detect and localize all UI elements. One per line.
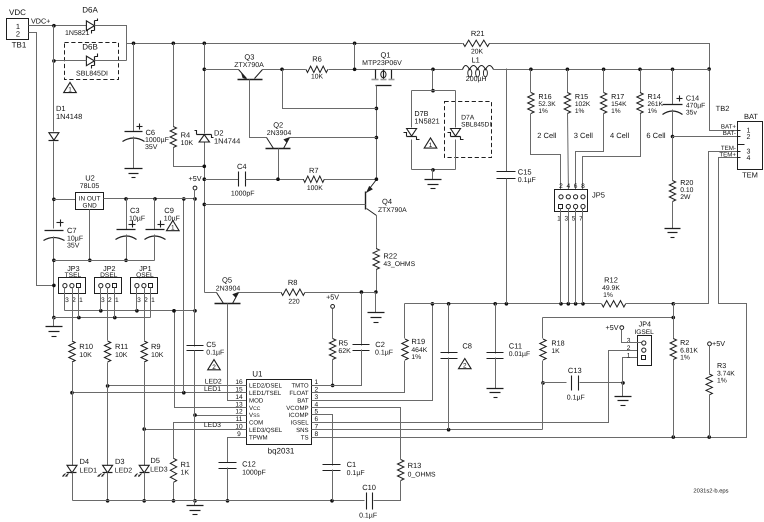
resistor R21 (20K) [463, 29, 490, 56]
svg-text:2N3904: 2N3904 [267, 130, 292, 137]
svg-text:L1: L1 [472, 56, 480, 65]
svg-text:10K: 10K [115, 352, 128, 359]
label file name [693, 488, 728, 495]
svg-text:IGSEL: IGSEL [634, 329, 654, 336]
wire BAT (pin3) [312, 302, 435, 401]
svg-text:LED1/TSEL: LED1/TSEL [249, 390, 282, 397]
svg-text:C9: C9 [164, 206, 174, 215]
+5V terminal (JP4) [606, 323, 624, 332]
wire R19 top to BAT bus [404, 304, 406, 339]
svg-text:C5: C5 [206, 340, 216, 349]
wire Q5 base to MOD [228, 304, 247, 401]
dashed box around D6B [65, 43, 119, 80]
wire R18 bottom [541, 361, 545, 385]
connector JP3 (TSEL) [59, 264, 86, 304]
svg-text:R4: R4 [181, 131, 191, 140]
resistor R3 (3.74K 1%) [706, 346, 735, 395]
svg-text:R8: R8 [288, 278, 298, 287]
svg-text:MOD: MOD [249, 397, 264, 404]
wire +5V down to C5 [194, 199, 196, 347]
wire Q1 gate [375, 86, 379, 180]
svg-text:1%: 1% [611, 108, 621, 115]
capacitor C5 (0.1uF) [187, 340, 225, 357]
capacitor C9 (10uF) [145, 199, 180, 240]
wire +5V output line [104, 197, 197, 201]
svg-text:R18: R18 [551, 339, 564, 348]
voltage regulator U2 (78L05) [76, 174, 104, 210]
svg-text:0_OHMS: 0_OHMS [408, 472, 436, 479]
wire D2 node to C4 [205, 179, 239, 181]
wire Q1 drain to L1 [392, 68, 463, 72]
resistor R9 (10K) [141, 341, 164, 362]
wire R12 right to TEM- node [626, 302, 676, 306]
svg-text:C7: C7 [67, 226, 77, 235]
wire L1 output line [494, 68, 710, 72]
svg-text:ZTX790A: ZTX790A [234, 62, 264, 69]
resistor R15 (102K 1%) 3-cell [564, 70, 593, 141]
resistor R8 (220) [281, 278, 305, 306]
wire R2 bottom to TS [673, 360, 675, 438]
svg-text:4: 4 [566, 183, 570, 190]
wire rail right of R21 to TB2 BAT+ [490, 44, 738, 131]
wire C14 bottom to BAT- line [671, 110, 675, 139]
LED D5 (LED3) [135, 456, 168, 477]
svg-text:VCC: VCC [249, 405, 261, 412]
svg-text:R21: R21 [471, 29, 485, 38]
wire C4 to R7 [246, 177, 304, 181]
svg-text:D4: D4 [80, 457, 90, 466]
svg-text:C11: C11 [509, 342, 522, 351]
svg-text:C6: C6 [146, 128, 156, 137]
wire R3 bottom to TS [709, 395, 711, 438]
wire Q2 base [278, 149, 280, 180]
svg-text:U2: U2 [85, 174, 95, 183]
inductor L1 (200uH) [463, 56, 494, 84]
wire Q5 emitter to R8 [239, 292, 281, 294]
svg-text:R20: R20 [680, 178, 693, 187]
svg-text:62K: 62K [338, 348, 351, 355]
wire U2 IN [54, 199, 76, 201]
svg-text:1N4744: 1N4744 [214, 137, 240, 146]
svg-text:10K: 10K [181, 140, 194, 147]
LED D4 (LED1) [62, 457, 97, 477]
svg-text:3: 3 [627, 338, 631, 345]
wire D6B cathode [95, 60, 127, 62]
svg-text:2: 2 [16, 30, 20, 39]
svg-text:1: 1 [627, 352, 631, 359]
resistor R22 (43_OHMS) [373, 249, 416, 270]
svg-text:6.81K: 6.81K [680, 348, 698, 355]
wire ground bus (C7-C3-C9) [54, 260, 155, 262]
wire D7 box top [412, 90, 456, 92]
resistor R18 (1K) [540, 318, 565, 361]
svg-text:TS: TS [301, 434, 309, 441]
wire C15 bottom to bus [506, 179, 508, 304]
svg-text:JP5: JP5 [592, 191, 605, 200]
wire C2 bottom to TMTO line [312, 350, 362, 386]
wire SNS (pin7) [312, 428, 543, 432]
resistor R12 (49.9K 1%) [602, 276, 626, 308]
svg-text:SBL845DI: SBL845DI [76, 71, 108, 78]
svg-text:U1: U1 [252, 370, 263, 379]
svg-text:20K: 20K [471, 49, 484, 56]
svg-text:D6A: D6A [82, 6, 98, 15]
svg-text:3 Cell: 3 Cell [574, 131, 594, 140]
svg-text:1N5821: 1N5821 [65, 30, 90, 37]
svg-text:TSEL: TSEL [65, 272, 82, 279]
ground (bottom bus) [187, 501, 204, 515]
svg-text:LED3: LED3 [150, 467, 168, 474]
svg-text:+5V: +5V [712, 339, 725, 348]
svg-text:LED2: LED2 [205, 379, 222, 386]
svg-text:1%: 1% [717, 377, 727, 384]
connector JP5 [555, 183, 605, 223]
svg-text:35V: 35V [67, 243, 80, 250]
svg-text:R13: R13 [408, 461, 422, 470]
IC U1 (bq2031) [235, 370, 318, 456]
wire D4 cathode [72, 473, 74, 501]
svg-text:COM: COM [249, 420, 263, 427]
svg-text:VSS: VSS [249, 412, 260, 419]
svg-text:1: 1 [151, 297, 155, 304]
transistor Q2 (2N3904 NPN) [266, 121, 292, 149]
wire VDC- from TB1 pin 2 [29, 33, 54, 286]
svg-text:1: 1 [68, 87, 72, 94]
svg-text:+5V: +5V [326, 292, 339, 301]
capacitor C1 (0.1uF) [323, 460, 365, 477]
wire JP1 pin2 to R9 [144, 288, 146, 341]
wire C8 bottom to SNS [448, 358, 450, 430]
svg-text:VDC: VDC [9, 8, 26, 17]
resistor R20 (0.10 2W) [669, 137, 693, 202]
svg-text:R5: R5 [338, 339, 348, 348]
wire C5 bottom to Vss/ground [193, 351, 197, 503]
svg-text:100K: 100K [307, 185, 323, 192]
svg-text:1: 1 [429, 142, 433, 149]
wire ground select line (jumper pin 1s) [54, 288, 151, 320]
svg-text:10K: 10K [151, 352, 164, 359]
connector JP2 (DSEL) [95, 264, 122, 304]
wire R4 bottom to D2 node [174, 148, 205, 167]
capacitor C13 (0.1uF) [543, 366, 585, 402]
wire R5 bottom to TMTO [331, 360, 335, 388]
wire JP4 pin3 to +5V [622, 330, 642, 343]
svg-text:102K: 102K [575, 101, 591, 108]
svg-text:R22: R22 [383, 252, 397, 261]
svg-text:6 Cell: 6 Cell [646, 131, 666, 140]
svg-text:2: 2 [108, 297, 112, 304]
svg-text:R10: R10 [79, 342, 93, 351]
svg-text:R16: R16 [538, 92, 551, 101]
svg-text:2031s2-b.eps: 2031s2-b.eps [693, 488, 728, 495]
dashed box around D7A [445, 102, 492, 158]
svg-text:10µF: 10µF [129, 216, 145, 223]
svg-text:bq2031: bq2031 [268, 447, 295, 456]
wire D7B cathode [411, 140, 413, 170]
wire R11 to D3 [107, 363, 109, 466]
wire +5V branch to TSEL line [182, 197, 186, 392]
ground (left jumper area) [46, 318, 63, 337]
wire R18/C13 to SNS end [542, 383, 544, 430]
svg-text:8: 8 [314, 431, 318, 438]
wire C1 bottom [332, 470, 334, 501]
svg-text:FLOAT: FLOAT [289, 390, 308, 397]
svg-text:JP4: JP4 [639, 320, 651, 329]
wire COM (pin11) to R1 [174, 423, 247, 459]
svg-text:10µF: 10µF [67, 236, 83, 243]
svg-text:QSEL: QSEL [136, 272, 154, 279]
wire VCOMP (pin4) to R13 [312, 408, 401, 460]
wire TS (pin8) to TEM+ [312, 158, 747, 439]
+5V terminal (U2 output) [189, 174, 202, 199]
svg-text:78L05: 78L05 [80, 183, 100, 190]
svg-text:35v: 35v [686, 110, 698, 117]
svg-text:IGSEL: IGSEL [291, 420, 310, 427]
svg-text:LED3: LED3 [204, 422, 221, 429]
svg-text:1K: 1K [181, 470, 190, 477]
wire TMTO (pin1) [312, 385, 362, 387]
capacitor C14 (470uF 35v) [663, 70, 706, 117]
+5V terminal (R3) [708, 339, 726, 348]
diode D6A (1N5821) [65, 6, 98, 38]
svg-text:154K: 154K [611, 101, 627, 108]
svg-text:TEM+: TEM+ [719, 151, 736, 158]
svg-text:1N4148: 1N4148 [56, 112, 82, 121]
wire gate to R6-left node [283, 70, 377, 109]
svg-text:2: 2 [463, 363, 467, 370]
svg-text:2N3904: 2N3904 [216, 286, 241, 293]
wire C11 bottom / ground [487, 358, 504, 398]
svg-text:C4: C4 [237, 162, 247, 171]
svg-text:TMTO: TMTO [291, 383, 308, 390]
svg-text:Q4: Q4 [382, 197, 392, 206]
wire Q4 collector to R22 [376, 216, 378, 249]
svg-text:DSEL: DSEL [100, 272, 118, 279]
wire drain branch to D7 box [431, 70, 435, 93]
wire JP2 pin2 to R11 [107, 288, 109, 341]
svg-text:R11: R11 [115, 342, 128, 351]
svg-text:2 Cell: 2 Cell [537, 131, 557, 140]
svg-text:10K: 10K [79, 352, 92, 359]
+5V terminal (R5) [326, 292, 339, 338]
wire R8 to ground node [305, 290, 376, 294]
svg-text:1%: 1% [411, 354, 421, 361]
svg-text:1: 1 [115, 297, 119, 304]
ground (JP4/C13) [615, 383, 632, 406]
wire VDC rail [127, 42, 463, 46]
svg-text:C13: C13 [568, 366, 582, 375]
resistor R10 (10K) [69, 341, 93, 362]
svg-text:220: 220 [288, 299, 300, 306]
capacitor C2 (0.1uF) [353, 293, 394, 357]
wire LED3/QSEL (pin10) [142, 422, 246, 431]
wire bottom ground bus [73, 499, 365, 503]
wire R14 to JP5 pin 8 [583, 114, 641, 195]
label VDC+ [31, 17, 50, 26]
svg-text:1000pF: 1000pF [242, 470, 266, 477]
resistor R17 (154K 1%) 4-cell [600, 70, 629, 141]
wire R13 bottom to C10 [374, 481, 401, 501]
svg-text:C14: C14 [686, 94, 699, 103]
zener diode D2 (1N4744) [195, 129, 241, 146]
svg-text:6: 6 [574, 183, 578, 190]
capacitor C6 (1000uF 35V) [123, 44, 169, 152]
wire Q3 collector / gate node [263, 68, 306, 72]
svg-text:ZTX790A: ZTX790A [378, 207, 407, 214]
svg-text:VCOMP: VCOMP [286, 405, 308, 412]
svg-text:3: 3 [101, 297, 105, 304]
svg-text:Q5: Q5 [222, 276, 232, 285]
svg-text:0.01µF: 0.01µF [509, 351, 530, 358]
wire R6 right to rail and Q1 [329, 44, 376, 72]
svg-text:1%: 1% [680, 355, 690, 362]
svg-text:D3: D3 [115, 457, 125, 466]
wire TEM- from TB2 [674, 152, 738, 304]
resistor R13 (0_OHMS) [398, 460, 437, 481]
terminal block TB1 (VDC input) [7, 8, 32, 50]
svg-text:+5V: +5V [606, 323, 619, 332]
svg-text:1: 1 [79, 297, 83, 304]
svg-text:10K: 10K [311, 74, 324, 81]
svg-text:0.1µF: 0.1µF [518, 177, 536, 184]
wire LED1/TSEL (pin15) [70, 386, 246, 395]
svg-text:BAT: BAT [297, 397, 309, 404]
svg-text:LED1: LED1 [204, 386, 221, 393]
terminal block TB2 (BAT/TEM) [716, 104, 763, 180]
wire FLOAT (pin2) [312, 361, 405, 393]
connector JP1 (QSEL) [131, 264, 158, 304]
svg-text:C12: C12 [242, 460, 256, 469]
transistor Q1 (MTP23P06V P-FET) [362, 51, 402, 86]
svg-text:C8: C8 [462, 342, 472, 351]
wire R16 to JP5 pin 2 [531, 114, 561, 195]
transistor Q4 (ZTX790A PNP) [366, 180, 408, 216]
note triangle 2 (C8) [459, 359, 472, 370]
ground (R20) [665, 202, 681, 238]
wire D7 box bottom [412, 168, 456, 172]
svg-text:261K: 261K [648, 101, 664, 108]
wire D2 column to Q5 collector [205, 292, 217, 294]
capacitor C8 [441, 304, 472, 359]
svg-text:C15: C15 [518, 168, 532, 177]
svg-text:470µF: 470µF [686, 103, 705, 110]
wire VDC+ down to D1 [53, 26, 55, 132]
wire C9 bottom [154, 235, 156, 261]
svg-text:SBL845DI: SBL845DI [461, 122, 491, 129]
wire Q3 base to Q2 collector [250, 80, 267, 138]
svg-text:0.10: 0.10 [680, 187, 693, 194]
wire BAT sense bus [405, 302, 602, 306]
resistor R2 (6.81K 1%) [670, 304, 698, 362]
svg-text:D7A: D7A [461, 115, 475, 122]
connector JP4 (IGSEL) [627, 320, 654, 366]
svg-text:TB2: TB2 [716, 104, 730, 113]
svg-text:LED1: LED1 [80, 467, 98, 474]
note triangle 1 (D6B) [64, 82, 77, 93]
svg-text:C1: C1 [347, 460, 357, 469]
svg-text:C3: C3 [130, 206, 140, 215]
wire Vcc (pin13) [172, 309, 246, 408]
wire R15 to JP5 pin 4 [568, 114, 569, 195]
svg-text:R17: R17 [611, 92, 624, 101]
wire Q4 base from D2 node [205, 204, 366, 206]
wire Vss (pin12) [193, 413, 246, 417]
svg-text:2: 2 [627, 345, 631, 352]
svg-text:3: 3 [137, 297, 141, 304]
wire JP3 pin2 to R10 [72, 288, 74, 341]
svg-text:0.1µF: 0.1µF [347, 470, 365, 477]
transistor Q5 (2N3904 NPN) [215, 276, 241, 304]
svg-text:SNS: SNS [296, 427, 309, 434]
svg-text:BAT: BAT [744, 112, 758, 121]
svg-text:9: 9 [237, 431, 241, 438]
resistor R7 (100K) [303, 166, 324, 192]
svg-text:MTP23P06V: MTP23P06V [362, 60, 402, 67]
svg-text:R15: R15 [575, 92, 588, 101]
svg-text:LED2: LED2 [115, 467, 133, 474]
svg-text:4: 4 [747, 155, 751, 162]
svg-text:LED2/DSEL: LED2/DSEL [249, 383, 282, 390]
svg-text:R7: R7 [309, 166, 319, 175]
svg-text:LED3/QSEL: LED3/QSEL [249, 427, 283, 434]
wire C13 right to JP4 pin1/ground [580, 358, 642, 385]
ground (C6) [125, 137, 143, 178]
svg-text:TEM: TEM [742, 171, 758, 180]
svg-text:52.3K: 52.3K [538, 101, 556, 108]
svg-text:R9: R9 [151, 342, 161, 351]
svg-text:Q3: Q3 [244, 53, 254, 62]
svg-text:ICOMP: ICOMP [289, 412, 309, 419]
wire VDC+ from TB1 pin 1 [29, 24, 87, 28]
resistor R19 (464K 1%) [402, 337, 428, 361]
wire BAT- to TB2 [673, 136, 738, 138]
svg-text:4 Cell: 4 Cell [610, 131, 630, 140]
svg-text:464K: 464K [411, 347, 427, 354]
wire C12 bottom [226, 468, 230, 503]
svg-text:D6B: D6B [82, 43, 98, 52]
wire D7A cathode [455, 140, 457, 170]
svg-text:1%: 1% [648, 108, 658, 115]
wire TPWM (pin9) to C12 [228, 438, 247, 463]
ground (D7) [425, 170, 442, 189]
svg-text:14: 14 [235, 394, 243, 401]
transistor Q3 (ZTX790A PNP) [205, 53, 265, 80]
svg-text:R3: R3 [717, 361, 726, 370]
resistor R1 (1K) [170, 458, 190, 482]
svg-text:R12: R12 [604, 276, 618, 285]
diode D6B (SBL845DI) [76, 43, 108, 78]
wire R17 to JP5 pin 6 [576, 114, 604, 195]
wire R22 bottom [374, 270, 378, 294]
ground (R22/C2 node) [368, 293, 385, 323]
svg-text:1%: 1% [575, 108, 585, 115]
wire JP5 odd pins to bus [561, 209, 583, 304]
svg-text:8: 8 [581, 183, 585, 190]
svg-text:Q2: Q2 [273, 121, 283, 130]
svg-text:1: 1 [171, 225, 175, 232]
capacitor C10 (0.1uF) [359, 483, 377, 520]
svg-text:1%: 1% [603, 292, 613, 299]
LED D3 (LED2) [98, 457, 133, 477]
wire R9 to D5 [144, 363, 146, 466]
wire R1 bottom [172, 483, 176, 503]
svg-text:2: 2 [212, 364, 216, 371]
svg-text:1K: 1K [551, 348, 560, 355]
svg-text:R2: R2 [680, 338, 689, 347]
svg-text:+5V: +5V [189, 174, 202, 183]
svg-text:R14: R14 [648, 92, 661, 101]
svg-text:VDC+: VDC+ [31, 17, 50, 26]
